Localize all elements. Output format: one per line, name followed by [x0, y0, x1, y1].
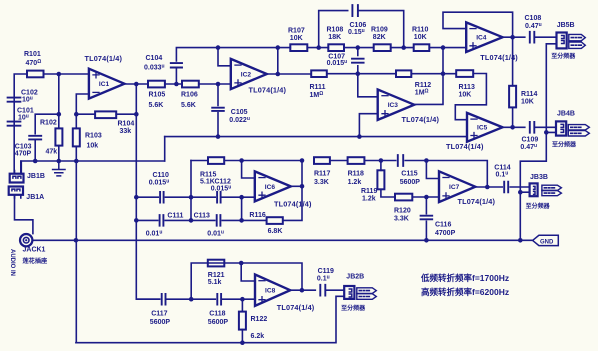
- junction C116 bottom at GND rail: [424, 238, 429, 243]
- wire R102 to bus: [58, 146, 60, 161]
- junction ground drop at GND rail: [518, 238, 523, 243]
- wire JB1A to jack tip: [15, 195, 33, 234]
- junction C106 left riser: [316, 45, 321, 50]
- junction C103 at ground bus: [33, 159, 38, 164]
- svg-text:TL074(1/4): TL074(1/4): [277, 303, 315, 312]
- junction wire A at feedback column: [134, 195, 139, 200]
- wire GND rail: [76, 239, 533, 241]
- svg-text:IC6: IC6: [265, 184, 276, 191]
- junction riser on wire A at x191: [189, 195, 194, 200]
- svg-text:TL074(1/4): TL074(1/4): [458, 197, 496, 206]
- svg-text:470Ω: 470Ω: [26, 59, 42, 67]
- capacitor C116: [421, 216, 433, 220]
- svg-text:R116: R116: [249, 212, 265, 219]
- resistor R110: [414, 44, 430, 51]
- wire C108 to JB5B pin1: [535, 36, 556, 38]
- capacitor C104: [171, 63, 182, 67]
- svg-text:3.3K: 3.3K: [314, 179, 329, 186]
- resistor R107: [290, 44, 307, 51]
- wire R113 to IC5 feedback: [455, 74, 486, 120]
- svg-text:0.015u: 0.015u: [327, 59, 348, 67]
- svg-text:C116: C116: [435, 222, 451, 229]
- wire R107-R108: [307, 47, 328, 49]
- svg-text:10u: 10u: [18, 113, 29, 121]
- wire C114 to JB3B pin1: [510, 186, 529, 188]
- capacitor C119: [320, 285, 325, 296]
- svg-text:C111: C111: [167, 213, 183, 220]
- resistor R114: [509, 86, 516, 108]
- resistor R115: [208, 157, 224, 164]
- ground symbol: [53, 161, 65, 176]
- capacitor C102: [8, 98, 21, 102]
- connector JB1A: [9, 187, 23, 195]
- wire IC3 + input riser: [359, 114, 377, 137]
- capacitor C110: [160, 192, 164, 203]
- svg-text:TL074(1/4): TL074(1/4): [480, 53, 518, 62]
- svg-text:IC7: IC7: [449, 184, 460, 191]
- svg-text:0.022u: 0.022u: [229, 116, 250, 124]
- wire R121 feedback: [191, 263, 302, 299]
- wire IC2 output: [267, 48, 311, 74]
- junction wire B at x241: [239, 218, 244, 223]
- svg-text:GND: GND: [540, 239, 554, 245]
- svg-text:5.6K: 5.6K: [149, 102, 164, 109]
- svg-text:AUDIO IN: AUDIO IN: [9, 249, 15, 276]
- capacitor C105: [212, 108, 224, 111]
- wire R122 column: [241, 299, 243, 343]
- svg-text:6.8K: 6.8K: [268, 228, 283, 235]
- svg-text:TL074(1/4): TL074(1/4): [249, 86, 287, 95]
- wire C103 branch: [35, 114, 59, 161]
- resistor R109: [374, 44, 391, 51]
- wire R112 to IC3 output: [411, 73, 443, 75]
- svg-text:R118: R118: [348, 171, 364, 178]
- resistor R108: [328, 44, 344, 51]
- resistor R101: [27, 71, 44, 78]
- svg-text:0.47u: 0.47u: [520, 143, 537, 151]
- wire R102 branch from input node: [58, 74, 60, 128]
- svg-text:1MΩ: 1MΩ: [415, 89, 429, 97]
- resistor R119: [377, 170, 384, 189]
- wire wireC bottom: [136, 298, 255, 300]
- wire IC4 + node down to R113 and IC3 output: [415, 48, 457, 105]
- svg-text:10K: 10K: [521, 99, 534, 106]
- resistor R121: [208, 260, 225, 267]
- wire riser IC6 - input: [242, 161, 255, 179]
- wire R110 to IC4 + input: [429, 47, 466, 49]
- svg-text:C105: C105: [231, 109, 248, 116]
- junction IC8 - branch on feedback wire: [239, 261, 244, 266]
- svg-text:5600P: 5600P: [208, 319, 229, 326]
- junction JB3B pin2 on ground drop: [518, 190, 523, 195]
- connector JB4B: [556, 121, 566, 135]
- svg-text:JB1A: JB1A: [26, 194, 44, 201]
- wire wireA C110-C112 to IC6 +: [136, 196, 255, 198]
- resistor R122: [239, 312, 246, 330]
- junction IC1 output node: [134, 82, 139, 87]
- svg-text:R120: R120: [394, 208, 411, 215]
- svg-text:10K: 10K: [290, 35, 303, 42]
- resistor R113: [456, 70, 473, 77]
- svg-text:JB1B: JB1B: [27, 173, 45, 180]
- junction riser on wire B at x191: [189, 218, 194, 223]
- wire IC6 output: [291, 185, 302, 187]
- svg-text:R109: R109: [371, 26, 388, 33]
- svg-text:IC2: IC2: [241, 71, 252, 78]
- capacitor C111: [160, 215, 164, 226]
- capacitor C101: [8, 122, 21, 126]
- svg-text:TL074(1/4): TL074(1/4): [85, 54, 123, 63]
- wire IC1 - input: [76, 94, 89, 128]
- svg-text:IC3: IC3: [388, 102, 399, 109]
- wire JB5B pin2 down to JB4B pin2: [546, 44, 556, 133]
- junction C116 top at IC7 + input: [424, 195, 429, 200]
- svg-text:R119: R119: [361, 188, 377, 195]
- svg-text:0.033u: 0.033u: [144, 63, 165, 71]
- svg-text:5.1K: 5.1K: [200, 179, 215, 186]
- svg-text:3.3K: 3.3K: [394, 216, 409, 223]
- svg-text:IC8: IC8: [265, 288, 276, 295]
- junction R121 riser on wire C: [189, 297, 194, 302]
- wire R116 to IC6 output riser: [283, 161, 302, 220]
- wire bus1 riser to bus2: [164, 137, 166, 161]
- svg-text:0.01u: 0.01u: [207, 230, 224, 238]
- junction R104 right on feedback column: [134, 112, 139, 117]
- wire R117-R118: [330, 160, 348, 162]
- junction R119 top: [379, 158, 384, 163]
- junction IC6 - branch on feedback wire: [239, 158, 244, 163]
- svg-text:R110: R110: [412, 26, 428, 33]
- svg-text:R114: R114: [521, 91, 537, 98]
- capacitor C114: [504, 182, 508, 193]
- svg-text:JB2B: JB2B: [346, 274, 364, 281]
- svg-text:至分频器: 至分频器: [341, 304, 366, 312]
- svg-text:82K: 82K: [373, 34, 386, 41]
- wire R105-R106 node to IC2: [165, 83, 231, 85]
- svg-text:1.2k: 1.2k: [348, 179, 362, 186]
- svg-text:JB3B: JB3B: [530, 174, 548, 181]
- resistor R111: [311, 70, 327, 77]
- svg-text:10K: 10K: [414, 34, 427, 41]
- junction IC6 + input node: [239, 195, 244, 200]
- wire R108-R109 with C107 branch: [344, 48, 374, 74]
- capacitor C113: [217, 215, 221, 226]
- svg-text:0.01u: 0.01u: [146, 230, 163, 238]
- junction IC6 output riser top: [300, 158, 305, 163]
- svg-text:R117: R117: [314, 171, 330, 178]
- svg-text:至分频器: 至分频器: [526, 202, 551, 210]
- op-amp IC1: [89, 69, 125, 99]
- svg-text:高频转折频率f=6200Hz: 高频转折频率f=6200Hz: [421, 287, 509, 297]
- wire R115 segment: [191, 160, 302, 162]
- junction IC2 output node: [276, 72, 281, 77]
- wire bus1 horizontal: [165, 136, 467, 138]
- svg-text:0.1u: 0.1u: [496, 171, 509, 179]
- junction R122 top at IC8 + input: [240, 297, 245, 302]
- svg-text:C113: C113: [194, 213, 210, 220]
- junction R101/R102 input node: [57, 72, 62, 77]
- svg-text:6.2k: 6.2k: [251, 333, 265, 340]
- junction IC5 output at R114 bottom: [510, 125, 515, 130]
- wire R109-R110: [391, 47, 414, 49]
- svg-text:0.1u: 0.1u: [317, 275, 330, 283]
- capacitor C103: [29, 136, 41, 140]
- wire IC5 output to C109: [503, 126, 525, 128]
- jack JACK1 (RCA socket): [20, 234, 32, 246]
- op-amp IC8: [255, 275, 290, 306]
- op-amp IC7: [439, 171, 475, 202]
- svg-text:0.15u: 0.15u: [348, 28, 365, 36]
- svg-text:JB4B: JB4B: [557, 110, 575, 117]
- wire C109 to JB4B pin1: [535, 126, 556, 128]
- svg-text:0.015u: 0.015u: [149, 178, 170, 186]
- svg-text:5.1k: 5.1k: [208, 279, 222, 286]
- wire IC4 feedback loop: [443, 12, 513, 37]
- resistor R103: [73, 128, 80, 146]
- wire C104 branch up to feedback: [176, 48, 218, 84]
- capacitor C118: [217, 294, 221, 305]
- svg-text:至分频器: 至分频器: [552, 141, 577, 149]
- svg-text:5.6K: 5.6K: [181, 102, 196, 109]
- svg-text:IC4: IC4: [476, 35, 487, 42]
- wire R118 to C115: [364, 160, 395, 162]
- wire IC7 output to C114: [475, 186, 502, 188]
- svg-text:18K: 18K: [328, 34, 341, 41]
- junction R112/R113 at IC3 output riser: [441, 71, 446, 76]
- junction C115 right / IC7 - branch: [424, 158, 429, 163]
- svg-text:33k: 33k: [120, 128, 132, 135]
- wire C115 to IC7 - and feedback: [405, 161, 487, 188]
- wire IC2 feedback top to R107: [218, 47, 290, 49]
- svg-text:R105: R105: [149, 92, 166, 99]
- junction IC2 - branch on feedback wire: [216, 45, 221, 50]
- svg-text:C115: C115: [401, 171, 417, 178]
- wire R111 to C107 node to R112: [327, 73, 396, 75]
- wire wireB C111-C113-R116: [136, 219, 266, 221]
- capacitor C109: [530, 122, 535, 133]
- svg-text:C117: C117: [151, 311, 167, 318]
- wire R114 column: [512, 37, 514, 127]
- op-amp IC3: [378, 90, 415, 120]
- resistor R118: [348, 157, 365, 164]
- connector JB3B: [530, 183, 538, 196]
- svg-text:C108: C108: [525, 15, 542, 22]
- resistor R105: [148, 81, 165, 88]
- svg-text:10K: 10K: [459, 92, 472, 99]
- svg-text:10k: 10k: [87, 142, 99, 149]
- svg-text:R103: R103: [85, 132, 102, 139]
- wire R103 to bus: [75, 146, 77, 161]
- wire IC1 output and feedback column: [124, 84, 160, 299]
- svg-text:0.47u: 0.47u: [525, 22, 542, 30]
- resistor R112: [396, 70, 411, 77]
- junction C104 bottom at R105/R106 node: [174, 82, 179, 87]
- wire ground column left: [75, 161, 77, 343]
- wire IC8 output to C119: [291, 289, 316, 291]
- junction C107 bottom / IC3 - branch: [356, 71, 361, 76]
- wire C119 to JB2B pin1: [326, 288, 344, 291]
- svg-text:R115: R115: [200, 171, 216, 178]
- wire jack to ground rail: [33, 239, 76, 241]
- svg-text:1MΩ: 1MΩ: [310, 91, 324, 99]
- junction C106 right riser: [401, 45, 406, 50]
- svg-text:JACK1: JACK1: [23, 246, 46, 253]
- svg-text:TL074(1/4): TL074(1/4): [402, 115, 440, 124]
- capacitor C106: [352, 5, 358, 16]
- wire R119 riser: [381, 161, 395, 198]
- capacitor C108: [530, 32, 535, 43]
- svg-text:5600P: 5600P: [150, 319, 171, 326]
- svg-text:R102: R102: [40, 119, 57, 126]
- wire R120 to IC7 +: [412, 196, 439, 198]
- svg-text:TL074(1/4): TL074(1/4): [446, 142, 484, 151]
- capacitor C117: [162, 294, 166, 305]
- junction IC4 output at R114 top: [510, 35, 515, 40]
- connector JB5B: [557, 33, 567, 49]
- svg-text:4700P: 4700P: [435, 230, 456, 237]
- resistor R102: [55, 128, 62, 145]
- svg-text:低频转折频率f=1700Hz: 低频转折频率f=1700Hz: [420, 273, 509, 283]
- svg-text:47k: 47k: [46, 149, 58, 156]
- svg-text:R112: R112: [415, 82, 431, 89]
- svg-text:至分频器: 至分频器: [551, 52, 576, 60]
- junction IC2 output riser top: [276, 45, 281, 50]
- svg-text:R104: R104: [118, 120, 135, 127]
- junction R102 at ground bus: [57, 159, 62, 164]
- capacitor C115: [398, 155, 403, 166]
- op-amp IC5: [467, 113, 503, 142]
- op-amp IC6: [255, 171, 291, 201]
- junction C105 top at IC2 + input: [216, 82, 221, 87]
- svg-text:R107: R107: [288, 27, 305, 34]
- net label GND: [533, 235, 559, 245]
- svg-text:1.2k: 1.2k: [362, 196, 376, 203]
- junction jack ground at GND rail: [74, 238, 79, 243]
- junction IC3 + branch on bus1: [357, 134, 362, 139]
- junction IC7 feedback at output: [485, 185, 490, 190]
- connector JB2B: [344, 286, 354, 299]
- capacitor C107: [352, 59, 364, 63]
- svg-text:IC5: IC5: [477, 125, 488, 132]
- junction C107 top: [356, 45, 361, 50]
- resistor R104: [95, 111, 116, 118]
- wire input line from R101 to JB1B: [14, 74, 27, 174]
- svg-text:IC1: IC1: [99, 81, 110, 88]
- wire C106 feedback loop: [319, 11, 404, 48]
- capacitor C112: [217, 192, 221, 203]
- junction IC4 + input node: [441, 45, 446, 50]
- op-amp IC2: [231, 59, 267, 89]
- wire JB4B pin2 to GND column: [520, 132, 556, 240]
- svg-text:R101: R101: [24, 51, 41, 58]
- svg-text:R113: R113: [459, 84, 475, 91]
- svg-text:R122: R122: [251, 316, 268, 323]
- wire C116 column: [425, 197, 427, 240]
- svg-text:C118: C118: [209, 311, 225, 318]
- wire bottom rail: [76, 296, 344, 342]
- wire riser wireA-wireB at 241.6: [241, 197, 243, 220]
- junction IC6 output node: [300, 184, 305, 189]
- junction IC8 output node: [300, 288, 305, 293]
- svg-text:C104: C104: [146, 55, 163, 62]
- svg-text:莲花插座: 莲花插座: [23, 257, 49, 265]
- svg-text:10u: 10u: [22, 96, 33, 104]
- wire R104 from R103 node: [76, 113, 136, 115]
- svg-text:JB5B: JB5B: [557, 22, 575, 29]
- resistor R117: [314, 157, 330, 164]
- wire C105 branch: [217, 84, 219, 137]
- wire IC3 - input riser: [358, 74, 378, 97]
- resistor R120: [395, 194, 412, 201]
- resistor R116: [267, 217, 283, 224]
- wire JB3B pin2 stub: [520, 191, 529, 193]
- junction R122 bottom at bottom rail: [240, 340, 245, 345]
- wire R101 to IC1 + input: [44, 73, 90, 75]
- svg-text:470P: 470P: [15, 150, 32, 157]
- svg-text:R108: R108: [327, 26, 344, 33]
- svg-text:R106: R106: [181, 92, 198, 99]
- svg-text:5600P: 5600P: [400, 179, 421, 186]
- junction C103 tap on R102 column: [57, 112, 62, 117]
- resistor R106: [182, 81, 199, 88]
- connector JB1B: [10, 174, 24, 183]
- wire IC4 output to C108: [503, 36, 525, 38]
- svg-text:R111: R111: [310, 84, 326, 91]
- junction R103 at ground bus: [74, 159, 79, 164]
- junction R104 left at R103 top: [74, 112, 79, 117]
- op-amp IC4: [466, 22, 502, 52]
- junction JB4B pin2 on ground drop: [544, 130, 549, 135]
- wire bus2 input section: [21, 161, 164, 174]
- junction wire B at feedback column: [134, 218, 139, 223]
- wire IC2 - input riser: [218, 48, 231, 66]
- wire riser bus-to-wireA at 191: [190, 161, 192, 221]
- svg-text:TL074(1/4): TL074(1/4): [274, 199, 312, 208]
- junction C105 bottom on bus1: [216, 134, 221, 139]
